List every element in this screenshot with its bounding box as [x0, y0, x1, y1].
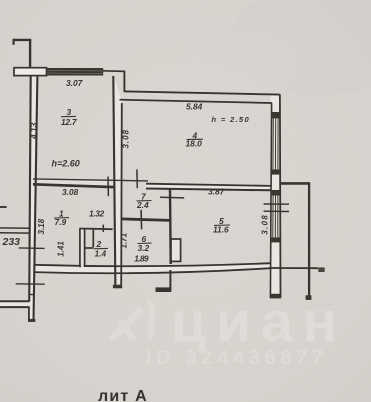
left wall double line	[29, 76, 31, 302]
svg-text:5.84: 5.84	[186, 102, 203, 112]
balcony outline right	[281, 182, 310, 185]
room3 top wall pier	[14, 68, 47, 76]
svg-text:3: 3	[67, 107, 72, 117]
left edge tick	[0, 206, 7, 208]
room4/5 divider infill	[146, 184, 271, 191]
svg-text:7.9: 7.9	[55, 217, 67, 227]
glazing light lines in room3 window	[47, 71, 103, 74]
svg-text:2.4: 2.4	[136, 200, 149, 210]
svg-text:циан: циан	[171, 290, 347, 354]
room3 bottom thin door line	[33, 179, 148, 181]
left edge lines above 233	[0, 227, 29, 229]
divider room4/room5 wall	[146, 184, 271, 186]
soft paper blotches	[230, 0, 371, 95]
room2 left wall white channel	[81, 230, 84, 267]
stub caps	[28, 319, 35, 322]
bottom-left wall branch	[0, 300, 30, 302]
room3 window	[47, 68, 104, 76]
room4 top wall outer	[124, 91, 279, 94]
duct box in room5	[171, 239, 181, 261]
hall bottom wall infill	[34, 263, 271, 273]
connector to room4	[103, 70, 125, 73]
central wall infill	[114, 76, 123, 288]
room2 closet	[79, 228, 112, 231]
svg-text:h = 2.50: h = 2.50	[212, 115, 250, 124]
left wall infill	[28, 76, 38, 322]
svg-text:3.08: 3.08	[261, 215, 270, 235]
svg-text:ID 324436877: ID 324436877	[146, 346, 328, 369]
room5 left wall	[169, 189, 172, 264]
svg-text:233: 233	[2, 236, 21, 248]
svg-text:3.18: 3.18	[37, 218, 46, 234]
dimension ticks	[19, 247, 45, 250]
bottom-left branch infill	[0, 301, 29, 307]
balcony end cap / nub	[306, 295, 312, 300]
faint circular scan watermark	[213, 128, 371, 312]
central wall double line	[113, 76, 115, 288]
svg-text:1.71: 1.71	[119, 232, 128, 248]
svg-text:4.13: 4.13	[29, 122, 39, 140]
svg-text:1.41: 1.41	[57, 241, 66, 257]
svg-text:1.32: 1.32	[89, 209, 105, 219]
svg-text:3.08: 3.08	[121, 129, 130, 148]
svg-text:h=2.60: h=2.60	[52, 159, 80, 169]
hall bottom wall	[34, 263, 271, 266]
svg-text:лит А: лит А	[98, 388, 148, 402]
svg-text:11.6: 11.6	[213, 224, 229, 234]
balcony hook top-left	[13, 39, 15, 45]
svg-text:1.89: 1.89	[134, 253, 149, 263]
room6/7 divider	[122, 219, 171, 221]
watermark logo (cian)	[113, 308, 153, 338]
svg-text:3.07: 3.07	[66, 78, 83, 88]
svg-text:3.08: 3.08	[62, 187, 79, 197]
svg-text:3.87: 3.87	[208, 187, 225, 197]
svg-text:18.0: 18.0	[186, 139, 203, 149]
window column details	[270, 112, 281, 298]
window column edges	[279, 94, 282, 297]
room1 top thick line	[33, 184, 115, 187]
svg-text:12.7: 12.7	[61, 117, 77, 127]
room4 top wall inner	[120, 100, 272, 103]
entrance door	[169, 270, 171, 291]
room3 bottom band infill	[33, 179, 115, 186]
svg-text:1.4: 1.4	[95, 248, 107, 258]
svg-text:3.2: 3.2	[138, 243, 150, 253]
window column infill	[270, 94, 280, 298]
